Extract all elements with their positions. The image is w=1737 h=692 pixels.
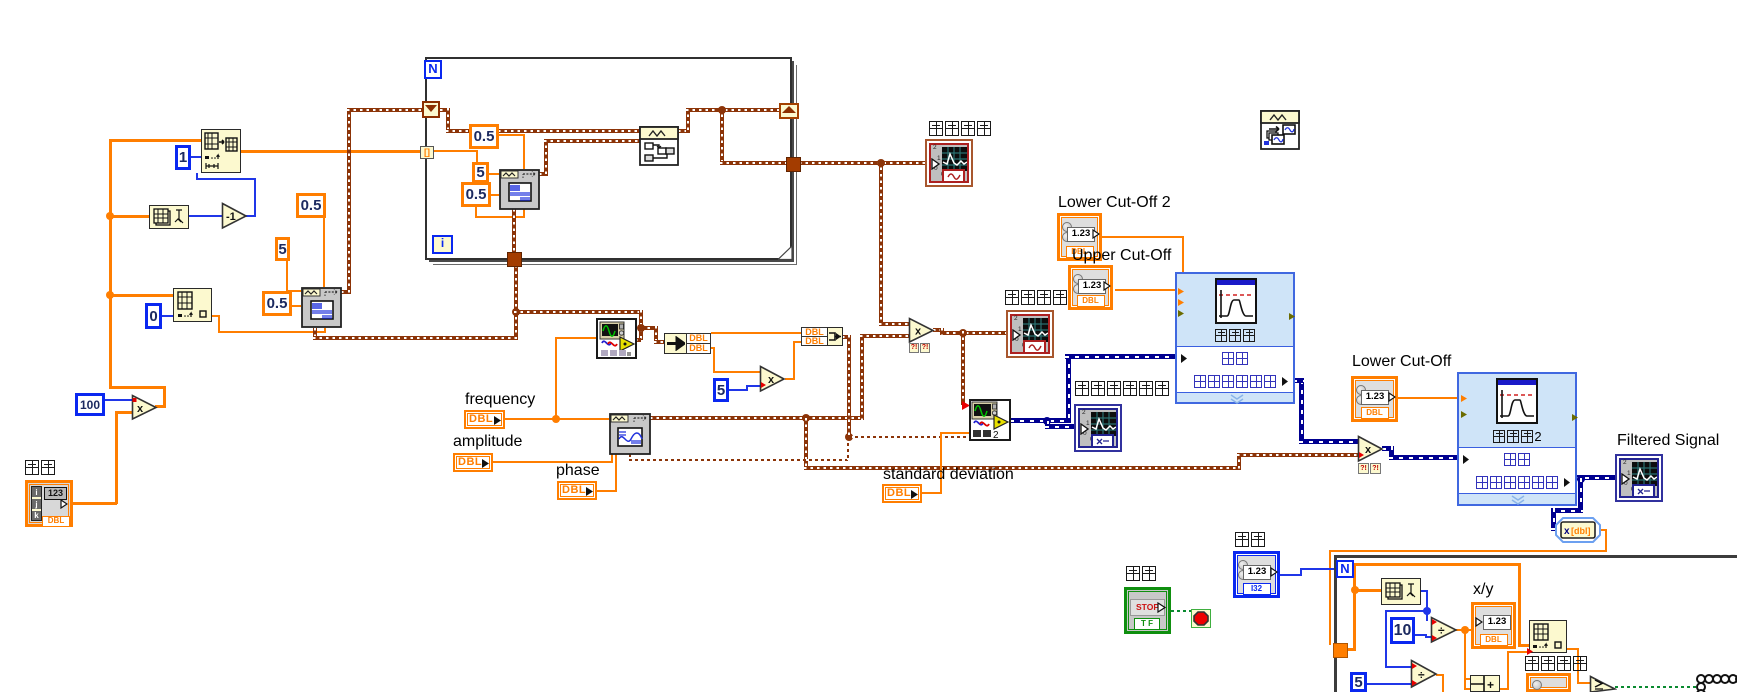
constant 100 xyxy=(75,393,105,416)
label 数组 xyxy=(24,460,56,478)
append waveforms node (in loop) xyxy=(639,126,679,166)
svg-text:+: + xyxy=(1487,678,1494,692)
wire loop1 out to graph and multiplier xyxy=(799,161,925,165)
wire index array out xyxy=(212,315,220,317)
multiply x (modulator) xyxy=(908,317,935,344)
wire 0 xyxy=(162,315,173,317)
filter1 left pins xyxy=(1177,288,1185,318)
wire 1 xyxy=(191,156,201,158)
divide 1 xyxy=(1430,616,1458,644)
filter2 left pins xyxy=(1460,395,1468,419)
wire size out blue xyxy=(1420,590,1428,592)
node1 channel vi xyxy=(596,318,637,359)
x/y indicator xyxy=(1471,602,1516,649)
判决门限 control xyxy=(1526,673,1571,692)
wire div1 out xyxy=(1456,629,1472,631)
wire std dev xyxy=(922,492,942,494)
control Lower Cut-Off xyxy=(1351,376,1398,422)
scalloped structure bottom-right xyxy=(1694,669,1737,692)
DBL control standard deviation xyxy=(882,484,922,503)
N terminal loop2 xyxy=(1336,560,1354,578)
row 滤波后的信号 xyxy=(1177,370,1293,393)
DBL control phase xyxy=(557,481,597,500)
constant 0 xyxy=(145,303,162,329)
comparator >= xyxy=(1589,675,1617,692)
svg-text:x: x xyxy=(768,374,775,386)
wire dbl2 to multiply xyxy=(711,347,715,349)
wire sine out to x xyxy=(650,416,862,420)
wire to shift register init W1 xyxy=(341,290,350,294)
stop function xyxy=(1191,609,1211,628)
wire dbl1 to bundle xyxy=(711,332,802,334)
wire phase xyxy=(597,490,617,492)
unbundle (get waveform components) xyxy=(664,333,687,354)
wire loop2 trunk xyxy=(1346,648,1356,651)
停止 control xyxy=(1124,587,1171,634)
constant 5 loop2 xyxy=(1350,672,1367,692)
wire sine branch to x2 (long) xyxy=(804,418,808,468)
shift register left xyxy=(422,101,440,118)
wire 0.5A down xyxy=(323,218,325,287)
wire x-main out xyxy=(933,328,943,332)
wire lower cutoff xyxy=(1398,397,1459,399)
array size node loop2 xyxy=(1381,578,1421,605)
convert from dynamic data xyxy=(1555,517,1601,543)
i terminal loop1 xyxy=(432,235,453,254)
tunnel loop1 right xyxy=(786,157,801,172)
wire tunnel[] to bfg xyxy=(432,150,478,152)
wire x2 out xyxy=(1382,446,1394,451)
index array node xyxy=(173,288,212,322)
wire index out xyxy=(1567,648,1579,650)
array subset node xyxy=(201,129,241,173)
node2 channel vi xyxy=(969,399,1011,441)
for loop 2 frame xyxy=(1334,555,1737,692)
control Lower Cut-Off 2 xyxy=(1057,213,1102,261)
constant 0.5 xyxy=(296,193,326,218)
svg-text:x: x xyxy=(1365,444,1372,456)
basic function generator (outside) xyxy=(301,287,342,328)
for loop 1 frame xyxy=(425,57,792,260)
svg-text:÷: ÷ xyxy=(1438,624,1445,638)
chart 加噪之后信道 xyxy=(1074,404,1122,452)
wire + out to index xyxy=(1499,688,1509,690)
wire append out xyxy=(678,129,690,133)
constant 1 xyxy=(175,145,191,170)
wire thin to node2 xyxy=(849,436,970,438)
wire amplitude xyxy=(493,461,613,463)
svg-text:x: x xyxy=(137,403,144,415)
tunnel loop1 bottom xyxy=(507,252,522,267)
-1 triangle xyxy=(221,202,248,230)
wire bfg-in bottom to tunnel xyxy=(512,209,516,253)
svg-text:2: 2 xyxy=(993,430,999,441)
wire SRleft to append xyxy=(440,108,450,112)
wire filter1 out xyxy=(1299,380,1304,442)
DBL control amplitude xyxy=(453,453,493,472)
svg-text:[dbl]: [dbl] xyxy=(1571,526,1591,536)
wire J1 to node1/unbundle xyxy=(514,310,643,314)
wire array trunk xyxy=(109,140,112,388)
wire comparator out green xyxy=(1615,686,1700,688)
wire multiply out to bundle xyxy=(785,378,795,380)
svg-text:÷: ÷ xyxy=(1418,668,1425,682)
basic function generator (in loop) xyxy=(499,169,540,210)
wire in-loop 0.5B xyxy=(491,194,499,196)
wire 数组 to multiply xyxy=(115,411,118,504)
array control 数组 xyxy=(25,480,73,527)
DBL control frequency xyxy=(464,410,505,429)
wire in-loop 0.5A xyxy=(499,134,525,136)
svg-text:x: x xyxy=(1564,526,1570,537)
multiply x (5x) xyxy=(759,365,786,393)
wire 100 xyxy=(105,399,133,401)
isolated waveform node top right xyxy=(1260,110,1300,150)
title 滤波器2 xyxy=(1459,428,1575,446)
wire stop green xyxy=(1171,610,1192,612)
wire sine bottom thin xyxy=(629,454,631,461)
svg-text:-1: -1 xyxy=(226,211,236,223)
wire array size out xyxy=(189,215,222,217)
graph 已调信号 xyxy=(1006,310,1054,358)
bundle (build waveform) xyxy=(801,327,828,337)
index array node loop2 xyxy=(1529,620,1567,653)
wire node2 out xyxy=(1010,418,1070,423)
array size node xyxy=(149,205,189,229)
wire -1 feedback xyxy=(246,215,256,217)
wire 5 out xyxy=(286,261,288,292)
node junctions on trunk xyxy=(106,212,114,220)
wire 个数 to N xyxy=(1280,574,1302,576)
sine waveform node xyxy=(609,413,651,455)
wire tunnel down / J1 xyxy=(514,265,518,338)
icon xyxy=(1215,278,1257,324)
wire frequency xyxy=(505,418,609,420)
shift register right xyxy=(779,103,799,119)
multiply x (array scale) xyxy=(131,394,158,421)
graph 方波序列 xyxy=(925,139,973,187)
svg-text:x: x xyxy=(915,326,922,338)
title 滤波器 xyxy=(1177,327,1293,345)
wire in-loop 5 xyxy=(489,173,499,175)
constant 0.5 xyxy=(262,291,292,316)
row 信号 xyxy=(1177,346,1293,371)
wire convert out (orange long) xyxy=(1601,529,1607,531)
constant 10 xyxy=(1390,617,1415,644)
wire div2 out xyxy=(1436,674,1444,676)
个数 control xyxy=(1233,551,1280,598)
tunnel loop2 left (orange) xyxy=(1333,643,1348,658)
wire 0.5B out xyxy=(292,305,301,307)
chart Filtered Signal xyxy=(1615,454,1663,502)
wire bfg-in to append xyxy=(539,172,548,176)
constant 5 xyxy=(275,237,290,261)
constant 5 (modulation) xyxy=(713,378,729,402)
plus node xyxy=(1470,675,1500,692)
wire bfg-out bottom output xyxy=(313,328,317,338)
tunnel [] loop1 left xyxy=(420,146,434,159)
wire in-loop underpass xyxy=(475,207,477,218)
control Upper Cut-Off xyxy=(1068,265,1113,310)
page curl loop1 xyxy=(778,246,793,261)
wire 5 const to multiply xyxy=(729,389,748,391)
wire filter2 out to chart xyxy=(1565,475,1615,480)
multiply x2 xyxy=(1357,435,1384,463)
N terminal loop1 xyxy=(424,60,442,79)
chevron row xyxy=(1229,394,1245,404)
wire array subset out xyxy=(241,150,421,153)
wires upper/lower cutoff2 xyxy=(1102,236,1184,238)
red arrow into node2 xyxy=(961,400,971,411)
divide 2 xyxy=(1410,659,1438,689)
wire bundle out xyxy=(842,335,849,339)
